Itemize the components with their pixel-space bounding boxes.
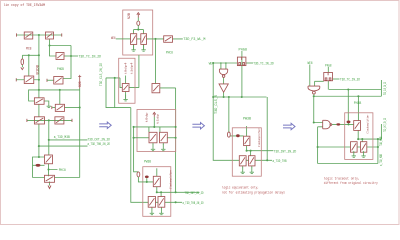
svg-text:t0dp: t0dp <box>144 112 148 122</box>
svg-text:a_T3D_T0B_2N_2D: a_T3D_T0B_2N_2D <box>88 143 111 147</box>
wire rail A <box>131 108 148 203</box>
wire c1 top <box>156 168 158 176</box>
wire out to W gate <box>155 39 157 84</box>
pin x79.7 <box>78 75 81 89</box>
wire g3 gate <box>250 151 252 156</box>
transistor c2 <box>148 197 155 208</box>
svg-text:logic traceout only,: logic traceout only, <box>324 177 360 182</box>
svg-text:PW3B: PW3B <box>243 118 252 122</box>
transistor V <box>122 84 129 92</box>
transistor BF <box>24 76 34 84</box>
module NOR cell outline <box>123 10 153 55</box>
svg-text:N2B: N2B <box>127 13 131 19</box>
wire pw3b bus <box>134 117 176 132</box>
svg-text:T3D_INT_2N_2D: T3D_INT_2N_2D <box>185 192 204 196</box>
wire we6 to p4g8 <box>213 62 237 64</box>
wire oval feed <box>228 97 230 132</box>
wire g gnds <box>243 166 252 168</box>
svg-text:T3D_CKT_2N_2D: T3D_CKT_2N_2D <box>384 118 388 132</box>
wire feedback row <box>33 177 80 179</box>
wire node y96 <box>314 80 382 96</box>
wire CLS down <box>106 78 115 108</box>
stage arrow 1 <box>99 122 111 128</box>
wire gate row s4 <box>318 139 378 163</box>
svg-text:logic equivalent only,: logic equivalent only, <box>222 186 259 191</box>
wire x48.8 down <box>48 120 50 155</box>
gate bubble s3 <box>236 134 240 137</box>
svg-text:T3D_CLS_2N_2D: T3D_CLS_2N_2D <box>100 63 104 86</box>
svg-text:different from original circui: different from original circuitry <box>324 181 379 186</box>
pin tick row3 right <box>71 119 73 122</box>
svg-text:PH3B: PH3B <box>354 102 362 106</box>
ground d3 <box>361 151 365 157</box>
wire pw3b gate right <box>167 137 175 139</box>
svg-text:PHC8: PHC8 <box>166 52 174 56</box>
wire p4g8b right <box>333 78 340 80</box>
wire node row y97 <box>213 96 266 98</box>
nand bubble <box>222 75 225 78</box>
wire blob stem <box>146 178 148 182</box>
ground g2 <box>241 167 245 173</box>
transistor BP vertical <box>45 155 53 164</box>
svg-text:T3D_TC_IN_2D: T3D_TC_IN_2D <box>340 79 361 83</box>
nand1 gate down s4 <box>308 86 320 91</box>
svg-text:a_T3D_M3B: a_T3D_M3B <box>54 136 71 140</box>
ground V <box>123 95 127 101</box>
wire vcc to oval <box>137 18 139 30</box>
wire L left <box>52 107 55 109</box>
junction dots stage1 <box>38 34 40 36</box>
pin tick L <box>51 106 53 109</box>
wire supply tap <box>22 55 39 76</box>
ground T1 <box>131 45 135 51</box>
wire rail B <box>134 127 139 172</box>
wire out row s3 <box>246 159 272 161</box>
transistor BM <box>34 117 44 124</box>
svg-text:P4G8: P4G8 <box>325 65 332 69</box>
wire V gate top <box>125 76 127 84</box>
svg-text:Clockamplifier: Clockamplifier <box>257 128 261 147</box>
pin tick row2b <box>46 79 48 82</box>
wire L gate stub <box>59 90 61 104</box>
ground pw3b 2 <box>161 145 165 151</box>
dots stage2 <box>137 29 139 31</box>
gate blob s4 <box>347 121 351 124</box>
svg-text:T3D_CLS_R: T3D_CLS_R <box>215 94 219 114</box>
wire net CKT <box>49 139 88 141</box>
svg-text:a_T3D_T0B_2N_2D: a_T3D_T0B_2N_2D <box>183 202 204 206</box>
vcc arrow <box>137 13 140 18</box>
pullup oval <box>137 21 140 25</box>
wire Q bottom <box>49 182 51 186</box>
transistor PHGB <box>56 53 64 60</box>
stage arrow 2 <box>192 123 204 129</box>
wire row2a <box>16 79 39 81</box>
transistor g1 <box>244 136 250 145</box>
wire right rail <box>266 97 268 160</box>
wire oval to gate <box>138 177 153 182</box>
wire d3 gate <box>361 139 363 142</box>
transistor BQ <box>45 175 55 182</box>
wire net T0B <box>39 145 88 147</box>
wire row3 <box>27 119 72 121</box>
gate bubble clockamp2 <box>145 176 149 179</box>
svg-text:t0dp4: t0dp4 <box>123 62 127 74</box>
module PW3B outline <box>137 110 176 152</box>
wire d1 bottom node <box>358 124 381 139</box>
svg-text:MC8: MC8 <box>26 47 32 51</box>
svg-text:t1dp4: t1dp4 <box>130 62 134 74</box>
wire K right to ground <box>44 101 49 106</box>
wire branch x114.7 <box>115 78 131 108</box>
wire T1 gnd <box>133 44 135 49</box>
series blob <box>336 123 340 125</box>
vcc arrow pw3b <box>153 112 156 117</box>
wire pw3b gnds <box>153 143 163 145</box>
wire internal bus <box>134 30 144 34</box>
wire blob stem s4 <box>348 123 350 124</box>
svg-text:a_T3D_T0B: a_T3D_T0B <box>273 160 287 164</box>
wire vertical x71 <box>63 46 71 79</box>
wire p4g8b bottom <box>327 67 329 90</box>
transistor d1 <box>354 121 361 131</box>
wire blob feed <box>348 90 358 121</box>
wire d gnds <box>354 151 364 154</box>
inverter triangle down <box>219 84 228 92</box>
wire pw3b gate left <box>134 137 149 139</box>
svg-text:B2B: B2B <box>78 81 82 87</box>
pin tick row3 left <box>26 119 28 122</box>
wire R2 drain down <box>50 40 72 57</box>
pin tick row1 right <box>61 33 63 36</box>
transistor B1 <box>24 32 33 39</box>
wire c gnds <box>152 207 162 209</box>
pullup oval s3 <box>228 132 231 137</box>
nand gate down <box>219 69 227 75</box>
stage arrow 3 <box>283 123 295 129</box>
module inverter outline <box>119 58 135 103</box>
ground c3 <box>159 209 163 215</box>
gate bubble <box>36 164 41 167</box>
transistor W <box>152 84 160 93</box>
wire W right <box>160 88 176 192</box>
wire P bottom to Q <box>49 164 58 177</box>
wire row2b <box>47 79 54 81</box>
svg-text:B1DB: B1DB <box>37 65 41 75</box>
svg-text:T3D_F3_WL_M: T3D_F3_WL_M <box>183 38 206 42</box>
pullup oval clockamp2 <box>137 172 140 177</box>
svg-text:Clockamplifier: Clockamplifier <box>168 170 172 189</box>
wire p4g8 bottom <box>241 51 243 97</box>
wire CLS input <box>106 78 122 88</box>
svg-text:T3D_M3B: T3D_M3B <box>380 136 384 146</box>
wire c1 bottom node <box>157 187 200 193</box>
wire net x79.7 <box>79 89 81 178</box>
ground g3 <box>250 167 254 173</box>
transistor pw3b 2 <box>160 132 168 143</box>
pin tick row2a <box>15 78 17 81</box>
wire row1 <box>17 34 62 36</box>
wire c3 gate <box>160 192 162 196</box>
transistor d3 <box>361 142 367 153</box>
svg-text:P4G8: P4G8 <box>239 48 248 52</box>
wire gate2 out <box>223 92 225 97</box>
wire nand2 A <box>314 96 323 122</box>
svg-text:T3D_INT_2N_2D: T3D_INT_2N_2D <box>274 151 297 155</box>
wire cls down <box>213 63 239 160</box>
wire out row <box>156 201 183 203</box>
svg-text:WE6: WE6 <box>111 37 116 41</box>
nand2 bubble <box>330 124 332 126</box>
transistor T1 <box>131 34 137 45</box>
module clockamp2 outline <box>143 167 171 217</box>
wire V gnd <box>125 92 127 99</box>
transistor g2 <box>239 156 246 166</box>
module clockamp3 outline <box>232 128 261 176</box>
config box P4G8 <box>237 57 246 66</box>
supply symbol <box>21 59 24 65</box>
ground T2 <box>141 45 145 51</box>
config box P4G8 s4 <box>324 73 333 81</box>
wire L right <box>65 107 80 109</box>
transistor pw3b 1 <box>149 132 157 143</box>
wire bubble stub <box>33 164 45 166</box>
ground under K <box>47 106 51 107</box>
svg-text:Clockamplifier: Clockamplifier <box>366 114 370 133</box>
transistor BL <box>55 104 64 111</box>
transistor g3 <box>249 156 255 166</box>
transistor B2 <box>46 32 54 39</box>
nand2 gate right <box>323 120 331 129</box>
wire PHGB out <box>64 55 78 57</box>
transistor U <box>164 36 173 43</box>
wire row y89.9 <box>29 90 80 101</box>
module clockamp4 outline <box>345 113 373 160</box>
wire T2 gnd <box>143 44 145 49</box>
wire left loop x32.5 <box>33 157 45 178</box>
svg-text:PW3B: PW3B <box>144 161 152 165</box>
wire we6 down <box>309 65 311 87</box>
wire nand2 out <box>332 123 354 125</box>
ground c2 <box>150 209 154 215</box>
svg-text:not for estimating propagation: not for estimating propagation delays <box>222 191 285 196</box>
wire output <box>137 38 183 40</box>
wire gate1 drop <box>221 63 226 69</box>
wire g1 top <box>246 126 248 136</box>
ground pw3b 1 <box>151 145 155 151</box>
nand1 bubble s4 <box>313 91 316 94</box>
svg-text:t1dp: t1dp <box>156 114 160 124</box>
transistor c3 <box>158 197 165 208</box>
wire nand2 B <box>318 127 323 164</box>
svg-text:a_T3D_M3B: a_T3D_M3B <box>380 153 384 166</box>
svg-text:PHC8: PHC8 <box>59 169 67 173</box>
transistor BN <box>55 117 64 124</box>
wire module1 to V drain <box>129 55 139 88</box>
pin tick row1 left <box>16 33 18 36</box>
transistor BG <box>54 77 63 85</box>
transistor d2 <box>351 142 358 153</box>
svg-text:T3D_TC_IN_2D: T3D_TC_IN_2D <box>253 63 274 67</box>
svg-text:PHGB: PHGB <box>57 68 64 72</box>
wire g1 bottom node <box>247 146 274 151</box>
ground d2 <box>352 151 356 157</box>
transistor T2 <box>141 34 147 45</box>
wire p4g8 out <box>246 62 253 64</box>
supply down arrow <box>48 186 51 189</box>
wire input WE6 <box>116 38 131 40</box>
svg-text:T3D_TC_IN_2D: T3D_TC_IN_2D <box>79 56 102 60</box>
wire p4g8b left <box>315 81 324 86</box>
transistor BK <box>34 98 44 105</box>
wire nand1 out <box>313 94 315 96</box>
transistor c1 <box>153 176 160 186</box>
wire oval to blob <box>230 135 243 137</box>
svg-text:T3D_CLR_2N_2D: T3D_CLR_2N_2D <box>384 82 388 95</box>
wire R1 gate drop <box>38 35 40 157</box>
svg-text:lin copy of TDE_ISV3AM: lin copy of TDE_ISV3AM <box>4 3 46 8</box>
wire bottom row s4 <box>318 163 378 165</box>
wire gate1-gate2 <box>223 77 225 84</box>
